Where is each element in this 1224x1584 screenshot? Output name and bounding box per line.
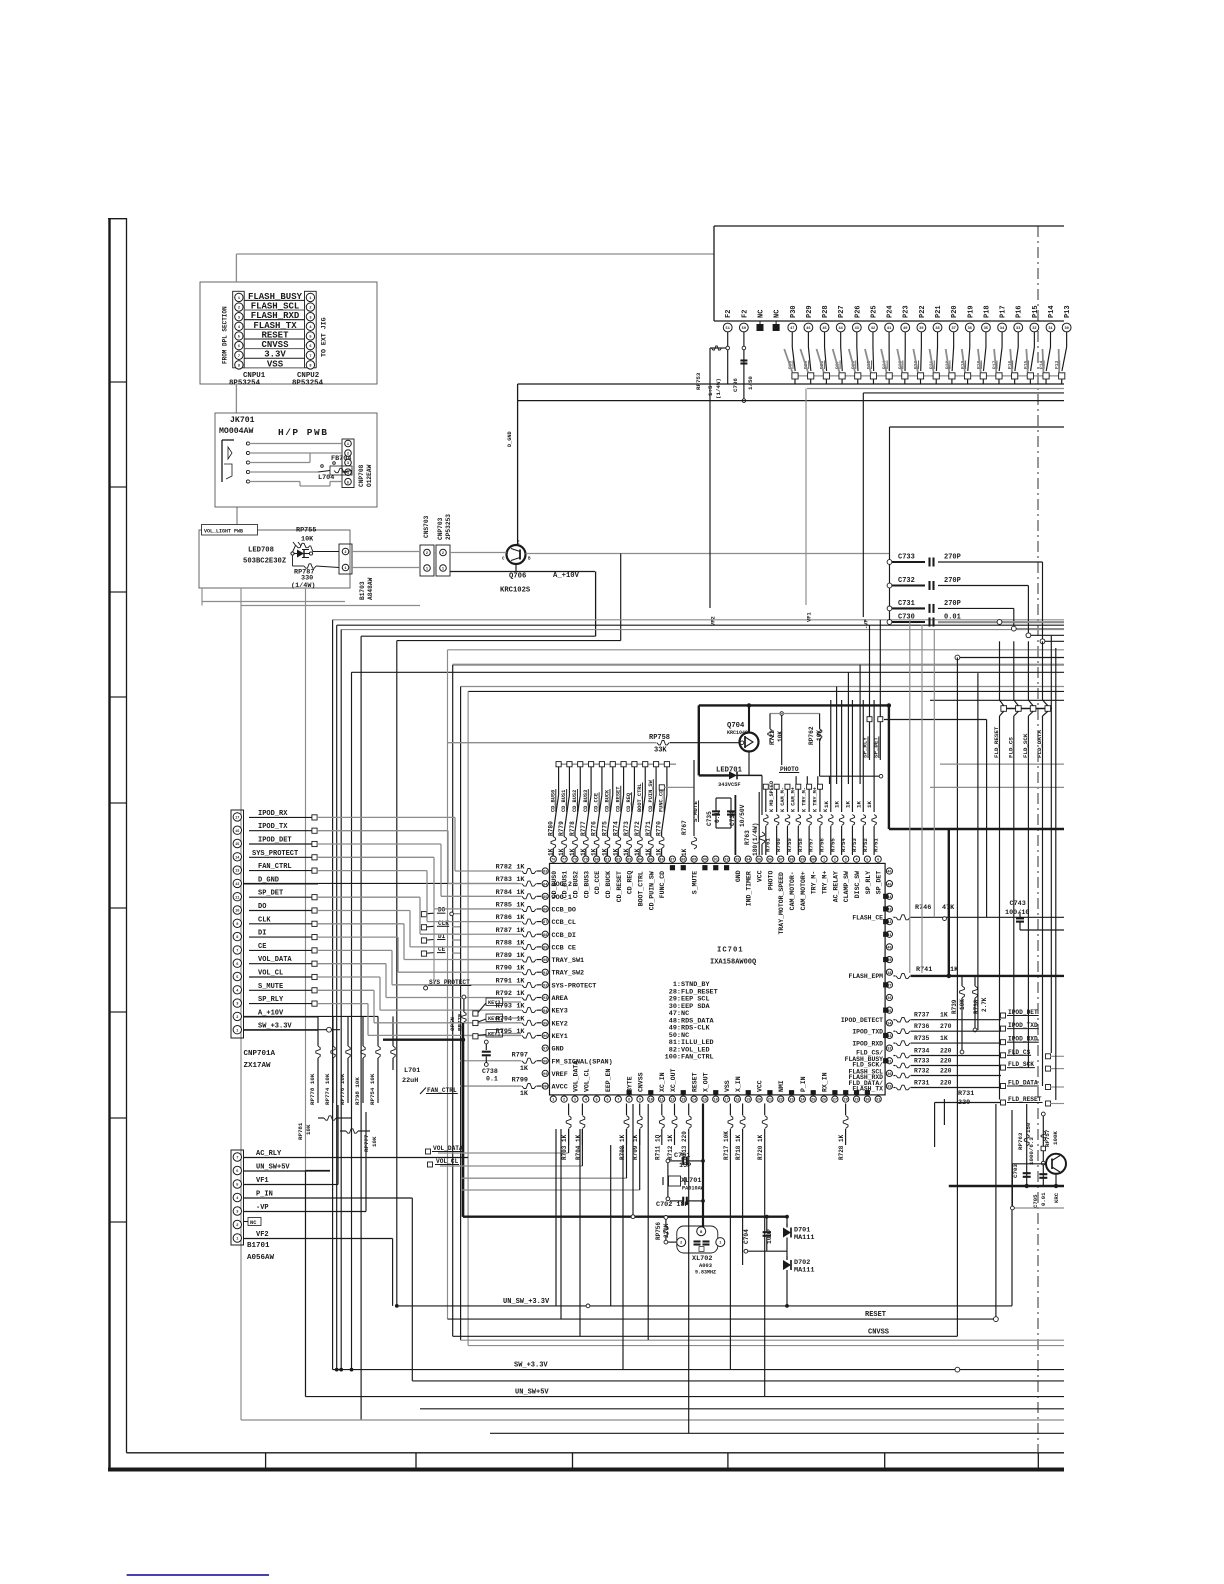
svg-text:R772: R772 <box>634 821 641 836</box>
svg-text:RESET: RESET <box>865 1311 886 1319</box>
svg-text:KEY2: KEY2 <box>552 1020 568 1028</box>
svg-text:IPOD_DET: IPOD_DET <box>1008 1009 1038 1016</box>
svg-text:EEP_EN: EEP_EN <box>605 1068 612 1092</box>
svg-text:BYTE: BYTE <box>627 1076 634 1092</box>
svg-text:1: 1 <box>823 859 825 863</box>
svg-text:P_IN: P_IN <box>800 1076 807 1092</box>
svg-text:FLD_RESET: FLD_RESET <box>1008 1096 1042 1103</box>
svg-text:98: 98 <box>543 1060 547 1064</box>
svg-text:RP754 10K: RP754 10K <box>369 1073 376 1105</box>
svg-text:VF2: VF2 <box>711 616 717 626</box>
svg-text:K MD_SPEED: K MD_SPEED <box>769 781 775 812</box>
svg-text:99: 99 <box>543 1073 547 1077</box>
svg-text:CAM_MOTOR-: CAM_MOTOR- <box>789 871 796 910</box>
svg-text:1K: 1K <box>950 966 959 974</box>
svg-text:R711 1Q: R711 1Q <box>654 1134 661 1160</box>
svg-text:XC_IN: XC_IN <box>659 1072 666 1092</box>
svg-text:9: 9 <box>236 923 238 927</box>
svg-text:R736: R736 <box>914 1023 930 1030</box>
svg-text:0.1: 0.1 <box>486 1076 498 1083</box>
svg-text:MA111: MA111 <box>794 1234 814 1242</box>
svg-text:VOL_DATA: VOL_DATA <box>258 956 292 964</box>
svg-text:-VP: -VP <box>256 1204 269 1212</box>
svg-text:D_GND: D_GND <box>507 431 513 447</box>
svg-text:R788: R788 <box>496 939 512 947</box>
svg-text:6: 6 <box>236 1170 238 1174</box>
svg-text:0.01: 0.01 <box>1040 1192 1047 1206</box>
svg-text:F2: F2 <box>725 310 733 318</box>
svg-text:C731: C731 <box>898 600 915 608</box>
svg-text:P15: P15 <box>1032 305 1040 318</box>
svg-text:AREA: AREA <box>552 995 569 1003</box>
svg-text:R799: R799 <box>512 1077 528 1085</box>
svg-text:9.83MHZ: 9.83MHZ <box>695 1270 716 1276</box>
svg-text:5: 5 <box>238 336 240 340</box>
svg-text:CNS703: CNS703 <box>423 515 430 538</box>
svg-text:1K: 1K <box>656 848 663 856</box>
svg-text:1: 1 <box>347 443 349 447</box>
svg-text:K CAM_M-: K CAM_M- <box>780 787 786 812</box>
svg-text:1K: 1K <box>866 801 873 808</box>
svg-text:DO: DO <box>258 903 266 911</box>
svg-text:CNVSS: CNVSS <box>637 1072 644 1092</box>
svg-text:R758: R758 <box>797 838 804 852</box>
svg-text:270P: 270P <box>944 554 961 562</box>
svg-text:R717 10K: R717 10K <box>723 1131 730 1160</box>
svg-text:KEY3: KEY3 <box>552 1008 568 1016</box>
svg-text:5: 5 <box>309 336 311 340</box>
svg-text:1K: 1K <box>844 801 851 808</box>
svg-text:P19: P19 <box>967 305 975 318</box>
svg-text:270: 270 <box>940 1023 952 1030</box>
svg-text:10K: 10K <box>301 536 314 544</box>
svg-text:1K: 1K <box>520 1065 529 1073</box>
svg-text:P17: P17 <box>1000 305 1008 318</box>
svg-text:1K: 1K <box>516 876 525 884</box>
svg-text:P14: P14 <box>1048 305 1056 318</box>
svg-text:Q704: Q704 <box>727 722 745 730</box>
svg-text:1K: 1K <box>634 848 641 856</box>
svg-text:H/P PWB: H/P PWB <box>278 427 328 438</box>
svg-text:29: 29 <box>887 1086 891 1090</box>
svg-text:20: 20 <box>757 1099 761 1103</box>
svg-text:27: 27 <box>833 1099 837 1103</box>
svg-text:40: 40 <box>887 947 891 951</box>
svg-text:1K: 1K <box>516 901 525 909</box>
svg-text:RP758: RP758 <box>649 734 670 742</box>
svg-text:17: 17 <box>724 1099 728 1103</box>
svg-text:R776: R776 <box>591 821 598 836</box>
svg-text:S_MUTE: S_MUTE <box>692 801 699 822</box>
svg-text:96: 96 <box>768 859 772 863</box>
svg-text:10: 10 <box>235 910 239 914</box>
svg-text:220: 220 <box>940 1058 952 1065</box>
svg-text:10K: 10K <box>816 730 823 741</box>
svg-text:FLASH_TX: FLASH_TX <box>852 1086 883 1093</box>
svg-text:A056AW: A056AW <box>247 1254 275 1262</box>
svg-text:IPOD_TXD: IPOD_TXD <box>1008 1022 1038 1029</box>
svg-text:D_GND: D_GND <box>258 876 279 884</box>
svg-text:22: 22 <box>779 1099 783 1103</box>
svg-text:R753: R753 <box>851 838 858 852</box>
svg-text:IND_TIMER: IND_TIMER <box>746 871 753 906</box>
svg-text:R791: R791 <box>496 977 512 985</box>
svg-text:NC: NC <box>250 1220 257 1226</box>
svg-text:40: 40 <box>903 327 907 331</box>
svg-text:1: 1 <box>236 1238 238 1242</box>
svg-text:A_+10V: A_+10V <box>258 1009 284 1017</box>
svg-text:R775: R775 <box>601 821 608 836</box>
svg-text:P20: P20 <box>951 305 959 318</box>
svg-text:CD_BUCK: CD_BUCK <box>605 871 612 898</box>
svg-text:TO EXT JIG: TO EXT JIG <box>321 317 328 357</box>
svg-text:R759: R759 <box>786 838 793 852</box>
svg-text:1K: 1K <box>940 1012 948 1019</box>
svg-text:1K: 1K <box>601 848 608 856</box>
svg-text:CD_CCE: CD_CCE <box>594 871 601 895</box>
svg-text:R754: R754 <box>840 838 847 852</box>
svg-text:MO004AW: MO004AW <box>219 427 253 436</box>
svg-text:VOL_CL: VOL_CL <box>583 1068 590 1092</box>
svg-text:XL701: XL701 <box>681 1177 701 1185</box>
svg-text:TRAY_MOTOR_SPEED: TRAY_MOTOR_SPEED <box>778 872 785 935</box>
svg-text:220: 220 <box>940 1048 952 1055</box>
svg-text:VCC: VCC <box>757 1080 764 1092</box>
svg-text:P_IN: P_IN <box>256 1191 273 1199</box>
svg-text:1K: 1K <box>558 848 565 856</box>
svg-text:2: 2 <box>309 307 311 311</box>
svg-text:1K: 1K <box>516 977 525 985</box>
svg-text:R728 1K: R728 1K <box>838 1134 845 1160</box>
svg-text:100K: 100K <box>1052 1131 1059 1145</box>
svg-text:TRY_M-: TRY_M- <box>811 871 818 894</box>
svg-text:1K: 1K <box>547 848 554 856</box>
svg-text:FLD_SCK: FLD_SCK <box>1008 1061 1034 1068</box>
svg-text:46: 46 <box>806 327 810 331</box>
svg-text:92: 92 <box>724 859 728 863</box>
svg-text:R718 1K: R718 1K <box>735 1134 742 1160</box>
svg-text:TRAY_SW1: TRAY_SW1 <box>552 957 585 965</box>
svg-text:503BC2E30Z: 503BC2E30Z <box>243 558 286 566</box>
svg-text:UN_SW_+3.3V: UN_SW_+3.3V <box>503 1298 550 1306</box>
svg-text:6: 6 <box>236 963 238 967</box>
svg-text:1: 1 <box>344 567 346 571</box>
svg-text:KRC104S: KRC104S <box>727 730 748 736</box>
svg-text:8P53254: 8P53254 <box>229 380 261 388</box>
svg-text:31: 31 <box>1048 327 1052 331</box>
svg-text:X_IN: X_IN <box>735 1076 742 1092</box>
svg-text:F2: F2 <box>741 310 749 318</box>
svg-text:CD_BUS3: CD_BUS3 <box>583 871 590 898</box>
svg-text:R780: R780 <box>547 821 554 836</box>
svg-text:R778: R778 <box>569 821 576 836</box>
svg-text:R790: R790 <box>496 965 512 973</box>
svg-text:RP753: RP753 <box>695 372 702 390</box>
svg-text:IPOD_RXD: IPOD_RXD <box>852 1040 883 1047</box>
svg-text:RP763: RP763 <box>1017 1132 1024 1150</box>
svg-text:1K: 1K <box>645 848 652 856</box>
svg-text:L701: L701 <box>404 1067 420 1075</box>
svg-text:R732: R732 <box>914 1068 930 1075</box>
svg-text:NC: NC <box>757 310 765 318</box>
svg-text:3: 3 <box>574 1099 576 1103</box>
svg-text:220: 220 <box>940 1080 952 1087</box>
svg-text:R789: R789 <box>496 952 512 960</box>
svg-text:13: 13 <box>681 1099 685 1103</box>
svg-text:P27: P27 <box>838 305 846 318</box>
svg-text:RX_IN: RX_IN <box>822 1072 829 1092</box>
svg-text:1000/6.3: 1000/6.3 <box>1028 1137 1035 1165</box>
svg-text:1K: 1K <box>516 952 525 960</box>
svg-text:SP_DET: SP_DET <box>876 871 883 895</box>
svg-text:JOG_1: JOG_1 <box>552 894 572 902</box>
svg-text:AC_RLY: AC_RLY <box>256 1150 282 1158</box>
svg-text:1K: 1K <box>855 801 862 808</box>
svg-text:89: 89 <box>692 859 696 863</box>
svg-text:R779: R779 <box>558 821 565 836</box>
svg-text:90: 90 <box>703 859 707 863</box>
svg-text:FLASH_BUSY: FLASH_BUSY <box>248 292 303 302</box>
svg-text:IPOD_RX: IPOD_RX <box>258 810 288 818</box>
svg-text:87: 87 <box>670 859 674 863</box>
svg-text:32: 32 <box>1032 327 1036 331</box>
svg-text:99: 99 <box>800 859 804 863</box>
svg-text:81: 81 <box>605 859 609 863</box>
svg-text:P18: P18 <box>983 305 991 318</box>
svg-text:C732: C732 <box>898 577 915 585</box>
svg-text:15: 15 <box>235 843 239 847</box>
svg-text:IPOD_TXD: IPOD_TXD <box>852 1028 883 1035</box>
svg-text:R763: R763 <box>744 830 751 845</box>
svg-text:10K: 10K <box>371 1136 378 1147</box>
svg-text:97: 97 <box>543 1048 547 1052</box>
svg-text:FROM DPL SECTION: FROM DPL SECTION <box>222 306 229 364</box>
svg-text:R757: R757 <box>808 838 815 852</box>
svg-text:80: 80 <box>594 859 598 863</box>
svg-text:PA010AW: PA010AW <box>682 1186 705 1192</box>
svg-text:VCC: VCC <box>757 870 764 882</box>
svg-text:CLK: CLK <box>258 916 271 924</box>
svg-text:C736: C736 <box>732 378 739 392</box>
svg-text:21: 21 <box>768 1099 772 1103</box>
svg-text:1K: 1K <box>591 848 598 856</box>
svg-text:19: 19 <box>746 1099 750 1103</box>
svg-text:76: 76 <box>551 859 555 863</box>
svg-text:88: 88 <box>681 859 685 863</box>
svg-text:R761: R761 <box>764 838 771 852</box>
svg-text:FAN_CTRL: FAN_CTRL <box>427 1087 457 1094</box>
svg-text:45: 45 <box>822 327 826 331</box>
svg-text:33: 33 <box>1016 327 1020 331</box>
svg-text:XL702: XL702 <box>692 1255 712 1263</box>
svg-text:2: 2 <box>680 1242 682 1246</box>
svg-text:R774: R774 <box>612 821 619 836</box>
svg-text:37: 37 <box>951 327 955 331</box>
svg-text:R777: R777 <box>580 821 587 836</box>
svg-text:R782: R782 <box>496 864 512 872</box>
svg-text:B1701: B1701 <box>247 1242 270 1250</box>
svg-text:89: 89 <box>543 947 547 951</box>
svg-text:1: 1 <box>309 297 311 301</box>
svg-text:93: 93 <box>735 859 739 863</box>
svg-text:50: 50 <box>742 327 746 331</box>
svg-text:P30: P30 <box>790 305 798 318</box>
svg-text:22uH: 22uH <box>402 1077 418 1085</box>
svg-text:8: 8 <box>236 936 238 940</box>
svg-text:CCB_CL: CCB_CL <box>552 919 576 927</box>
svg-text:C735: C735 <box>706 811 713 826</box>
svg-text:CLK: CLK <box>438 920 449 927</box>
svg-text:IPOD_RXD: IPOD_RXD <box>1008 1036 1038 1043</box>
svg-text:1K: 1K <box>516 914 525 922</box>
svg-text:VF1: VF1 <box>256 1177 269 1185</box>
svg-text:10K: 10K <box>305 1124 312 1135</box>
svg-text:7: 7 <box>236 950 238 954</box>
svg-text:5: 5 <box>236 1184 238 1188</box>
svg-text:77: 77 <box>562 859 566 863</box>
svg-text:1: 1 <box>238 297 240 301</box>
svg-text:PHOTO: PHOTO <box>767 871 774 891</box>
svg-text:B1703: B1703 <box>359 581 366 600</box>
svg-text:AVCC: AVCC <box>552 1084 568 1092</box>
svg-text:KRC: KRC <box>1053 1192 1060 1203</box>
svg-text:R738: R738 <box>973 999 980 1014</box>
svg-text:11: 11 <box>235 896 239 900</box>
svg-text:36: 36 <box>887 997 891 1001</box>
svg-text:FLASH_CE: FLASH_CE <box>852 915 883 922</box>
svg-text:100/10: 100/10 <box>1005 909 1029 917</box>
svg-text:10/50V: 10/50V <box>739 804 746 827</box>
svg-text:43: 43 <box>855 327 859 331</box>
svg-text:90: 90 <box>543 959 547 963</box>
svg-text:3.3V: 3.3V <box>264 350 286 360</box>
svg-text:1K: 1K <box>516 864 525 872</box>
svg-text:SP_DET: SP_DET <box>258 890 283 898</box>
svg-text:LED708: LED708 <box>248 547 274 555</box>
svg-text:79: 79 <box>584 859 588 863</box>
svg-text:FUNC_CD: FUNC_CD <box>659 871 666 898</box>
svg-text:(1/4W): (1/4W) <box>291 582 315 590</box>
svg-text:CCB_DO: CCB_DO <box>552 906 576 914</box>
svg-text:1: 1 <box>442 568 444 572</box>
svg-text:X_OUT: X_OUT <box>702 1072 709 1092</box>
svg-text:2: 2 <box>442 552 444 556</box>
svg-text:KEY1: KEY1 <box>488 1032 500 1038</box>
svg-text:30: 30 <box>887 1073 891 1077</box>
svg-text:KRC102S: KRC102S <box>500 587 531 595</box>
svg-text:1K: 1K <box>516 939 525 947</box>
svg-text:R760: R760 <box>775 838 782 852</box>
svg-text:CCB_DI: CCB_DI <box>552 932 576 940</box>
svg-text:CNVSS: CNVSS <box>868 1328 889 1336</box>
svg-text:R746: R746 <box>915 904 931 912</box>
svg-text:78: 78 <box>573 859 577 863</box>
svg-text:3: 3 <box>845 859 847 863</box>
svg-text:1: 1 <box>552 1099 554 1103</box>
svg-text:C733: C733 <box>898 554 915 562</box>
svg-text:26: 26 <box>822 1099 826 1103</box>
svg-text:2: 2 <box>236 1224 238 1228</box>
svg-text:23: 23 <box>789 1099 793 1103</box>
svg-text:R720 1K: R720 1K <box>757 1134 764 1160</box>
svg-text:RP781: RP781 <box>297 1122 304 1140</box>
svg-text:42: 42 <box>871 327 875 331</box>
svg-text:87: 87 <box>543 921 547 925</box>
svg-text:51: 51 <box>726 327 730 331</box>
svg-text:FAN_CTRL: FAN_CTRL <box>258 863 292 871</box>
svg-text:11: 11 <box>659 1099 663 1103</box>
svg-text:12: 12 <box>235 883 239 887</box>
svg-text:R798 10K: R798 10K <box>354 1077 361 1105</box>
svg-text:CD_REQ: CD_REQ <box>627 871 634 895</box>
svg-text:R739: R739 <box>951 999 958 1014</box>
svg-text:2: 2 <box>426 552 428 556</box>
svg-text:P22: P22 <box>919 305 927 318</box>
svg-text:FM_SIGNAL(SPAN): FM_SIGNAL(SPAN) <box>552 1058 613 1066</box>
svg-text:SYS_PROTECT: SYS_PROTECT <box>252 850 298 858</box>
svg-text:2P53253: 2P53253 <box>445 514 452 540</box>
svg-text:R741: R741 <box>916 966 932 974</box>
svg-text:VREF: VREF <box>552 1071 568 1079</box>
svg-text:91: 91 <box>543 972 547 976</box>
svg-text:A848AW: A848AW <box>367 577 374 600</box>
svg-text:88: 88 <box>543 934 547 938</box>
svg-text:RP757: RP757 <box>1044 1129 1051 1147</box>
svg-text:CNP703: CNP703 <box>437 517 444 540</box>
svg-text:P13: P13 <box>1064 305 1072 318</box>
svg-text:95: 95 <box>543 1022 547 1026</box>
svg-text:3: 3 <box>238 316 240 320</box>
svg-text:6: 6 <box>877 859 879 863</box>
svg-text:1K: 1K <box>834 801 841 808</box>
svg-text:86: 86 <box>543 909 547 913</box>
svg-text:R797: R797 <box>512 1051 528 1059</box>
svg-text:CAM_MOTOR+: CAM_MOTOR+ <box>800 871 807 910</box>
svg-text:R751: R751 <box>873 838 880 852</box>
svg-text:R752: R752 <box>862 838 869 852</box>
svg-text:C702 18P: C702 18P <box>656 1201 689 1209</box>
svg-text:FLASH_SCL: FLASH_SCL <box>251 302 300 312</box>
svg-text:16: 16 <box>714 1099 718 1103</box>
svg-text:P28: P28 <box>822 305 830 318</box>
svg-text:38: 38 <box>935 327 939 331</box>
svg-text:RESET: RESET <box>692 1072 699 1092</box>
svg-text:P21: P21 <box>935 305 943 318</box>
svg-text:BOOT_CTRL: BOOT_CTRL <box>637 871 644 906</box>
svg-text:25: 25 <box>811 1099 815 1103</box>
svg-text:46: 46 <box>887 871 891 875</box>
svg-text:CNP708: CNP708 <box>358 464 365 487</box>
svg-text:47K: 47K <box>942 904 955 912</box>
svg-text:85: 85 <box>543 896 547 900</box>
svg-text:RESET: RESET <box>261 330 289 340</box>
svg-text:SYS-PROTECT: SYS-PROTECT <box>552 982 597 990</box>
svg-text:91: 91 <box>714 859 718 863</box>
svg-text:95: 95 <box>757 859 761 863</box>
svg-text:FLASH_EPM: FLASH_EPM <box>848 973 883 980</box>
svg-text:RP755: RP755 <box>296 527 316 535</box>
svg-text:ZX17AW: ZX17AW <box>244 1062 272 1070</box>
svg-text:1K: 1K <box>516 1003 525 1011</box>
svg-text:1K: 1K <box>580 848 587 856</box>
svg-text:UN_SW+5V: UN_SW+5V <box>515 1389 549 1397</box>
svg-text:-VP: -VP <box>864 619 870 629</box>
svg-text:47: 47 <box>790 327 794 331</box>
svg-text:8: 8 <box>309 364 311 368</box>
svg-text:R770: R770 <box>656 821 663 836</box>
svg-text:83: 83 <box>627 859 631 863</box>
svg-text:100: 100 <box>810 859 816 863</box>
